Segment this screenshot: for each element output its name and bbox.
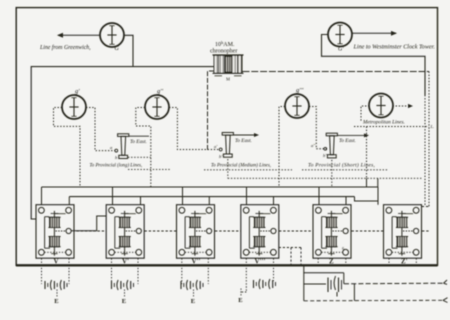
- battery B3: [181, 280, 203, 290]
- battery drop wires dashed: [42, 258, 417, 292]
- relay V4: [241, 205, 279, 259]
- svg-text:To Provincial (Short) Lines,: To Provincial (Short) Lines,: [308, 161, 375, 168]
- svg-text:V'': V'': [192, 258, 201, 266]
- earth E3: [191, 290, 196, 306]
- relay V3: [177, 205, 215, 259]
- wire g4 right lead dotted arrow: [393, 104, 414, 108]
- galvanometer G2 (top right): [328, 23, 352, 47]
- wire g2 right lead dotted: [169, 108, 219, 150]
- wire g4 left lead dotted: [361, 106, 370, 122]
- wire chronopher left lead: [208, 71, 215, 150]
- galvanometer g3: [285, 94, 309, 118]
- wire g3 left lead dotted: [279, 107, 285, 188]
- To East arrow S2: [234, 133, 260, 137]
- switch S2: [222, 133, 233, 158]
- wire dotted stub under S2: [204, 169, 292, 171]
- contact circle S2: [219, 148, 222, 151]
- switch S3: [326, 133, 337, 158]
- wire long line right top: [344, 280, 447, 284]
- svg-text:To Provincial (Medium) Lines,: To Provincial (Medium) Lines,: [211, 163, 271, 168]
- frame bottom heavy line: [16, 264, 438, 266]
- bus line A: [42, 186, 379, 188]
- svg-text:To East.: To East.: [235, 138, 252, 144]
- galvanometer g1: [62, 95, 86, 119]
- svg-text:M: M: [226, 77, 230, 82]
- border frame: [16, 8, 437, 266]
- battery B4: [254, 279, 276, 289]
- svg-text:To East.: To East.: [130, 139, 147, 145]
- contact circle S1: [115, 149, 118, 152]
- bus drops B: [69, 197, 346, 205]
- galvanometer G (top left): [100, 23, 124, 47]
- galvanometer g2: [145, 95, 169, 119]
- wire V armature elbow: [72, 216, 107, 231]
- battery B1: [45, 280, 67, 290]
- wire feeds to Z loop dashed: [279, 248, 301, 266]
- switch S1: [118, 134, 129, 159]
- svg-text:Z': Z': [401, 258, 408, 266]
- wire S1 foot dotted: [128, 156, 151, 158]
- wire stub to line A: [377, 178, 379, 187]
- svg-text:Line from Greenwich,: Line from Greenwich,: [39, 44, 91, 51]
- svg-text:L.: L.: [430, 124, 435, 129]
- To East arrow S1: [129, 135, 149, 137]
- galvanometer g4 metropolitan: [369, 94, 393, 118]
- wire g2 left lead dotted: [136, 108, 151, 188]
- arrow to Greenwich: [57, 33, 100, 38]
- contact circle S3: [324, 147, 327, 150]
- wire G right lead: [124, 35, 133, 66]
- wire long line right bottom dashed: [304, 298, 448, 303]
- wire B4 earth link: [241, 292, 246, 293]
- relay V2: [106, 205, 144, 259]
- wire G2 left lead: [322, 35, 426, 96]
- svg-text:V''': V''': [255, 258, 266, 266]
- earth E1: [54, 290, 59, 306]
- relay Z2: [384, 205, 422, 259]
- battery B5: [328, 276, 342, 297]
- wire under metropolitan dashed: [354, 126, 429, 128]
- earth E4: [238, 289, 243, 305]
- svg-text:To East.: To East.: [339, 138, 356, 144]
- arrow to Westminster: [352, 31, 397, 36]
- svg-text:g': g': [75, 88, 80, 95]
- wire armature bus dashed segments: [77, 207, 430, 232]
- svg-text:chronopher: chronopher: [210, 49, 237, 55]
- svg-text:V: V: [54, 258, 59, 266]
- svg-text:G': G': [338, 47, 344, 53]
- wire g3 right lead dotted: [309, 107, 327, 149]
- svg-text:To Provincial (long) Lines,: To Provincial (long) Lines,: [90, 164, 143, 169]
- svg-text:10hAM.: 10hAM.: [215, 40, 235, 48]
- wire g1 right lead dotted: [86, 108, 115, 151]
- svg-text:Metropolitan Lines.: Metropolitan Lines.: [362, 120, 405, 126]
- earth E2: [122, 290, 127, 306]
- relay Z: [313, 205, 351, 259]
- svg-text:Line to Westminster Clock Towe: Line to Westminster Clock Tower.: [353, 44, 435, 50]
- battery B2: [112, 280, 134, 290]
- svg-text:G: G: [115, 46, 120, 52]
- To East arrow S3: [338, 133, 370, 137]
- wire S3 foot dotted down: [331, 160, 333, 187]
- svg-text:g'': g'': [157, 88, 164, 95]
- bus drops A: [42, 187, 320, 205]
- wire S2 foot dotted down: [227, 159, 229, 178]
- wire metropolitan down: [366, 127, 368, 179]
- wire dotted row C: [228, 177, 422, 179]
- chronopher C: [213, 55, 244, 76]
- Z battery loop: [304, 265, 355, 301]
- svg-text:V': V': [122, 258, 129, 266]
- svg-text:Z: Z: [329, 258, 334, 266]
- wire chronopher right lead (dashed to right column): [243, 71, 427, 73]
- wire g1 left lead dotted: [54, 108, 81, 188]
- relay V: [36, 205, 74, 259]
- svg-text:g''': g''': [296, 87, 304, 94]
- bus line B: [69, 196, 354, 198]
- wire main top rail: [31, 67, 214, 219]
